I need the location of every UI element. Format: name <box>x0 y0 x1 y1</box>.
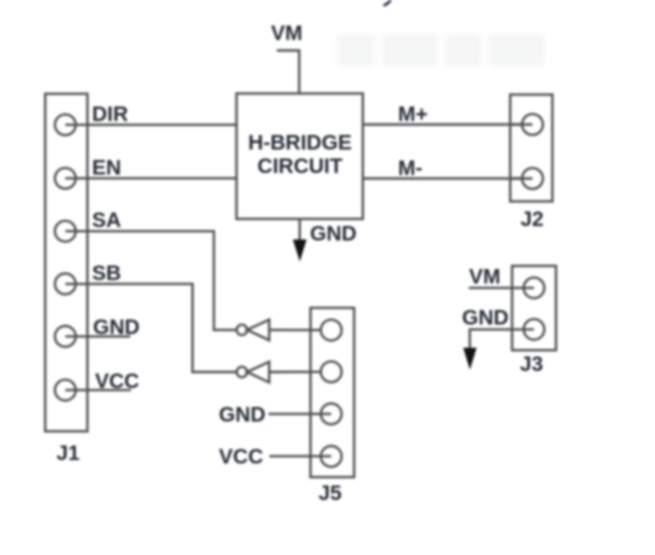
wire M+ into J2 pin 1 <box>510 123 532 125</box>
wire inverter 1 output to J5 pin 1 <box>269 329 331 332</box>
wire GND from J3 pin 2 down <box>470 329 534 348</box>
svg-text:CIRCUIT: CIRCUIT <box>257 155 342 178</box>
svg-text:M+: M+ <box>398 103 428 126</box>
wire GND to J5 pin 3 <box>269 413 332 415</box>
wire SA from J1 pin 3 to inverter 1 <box>65 231 236 330</box>
svg-text:VM: VM <box>469 266 501 289</box>
wire VM to J3 pin 1 <box>469 287 534 289</box>
wire VCC to J5 pin 4 <box>270 455 332 457</box>
svg-text:VCC: VCC <box>219 445 263 468</box>
wire M- from H-bridge to J2 pin 2 <box>363 177 533 179</box>
wire EN from J1 pin 2 to H-bridge <box>65 177 236 179</box>
svg-text:EN: EN <box>92 156 121 179</box>
inverter 1 (SA) <box>237 320 270 341</box>
wire VM to H-bridge top <box>277 51 299 94</box>
op-amp U1 H-bridge circuit block <box>237 94 363 219</box>
svg-text:M-: M- <box>398 157 423 180</box>
svg-text:VCC: VCC <box>95 370 139 393</box>
svg-text:GND: GND <box>310 223 357 246</box>
svg-text:J5: J5 <box>318 482 342 505</box>
ground arrow at J3 <box>463 348 476 370</box>
svg-text:DIR: DIR <box>92 103 128 126</box>
svg-text:H-BRIDGE: H-BRIDGE <box>248 132 352 155</box>
wire inverter 2 output to J5 pin 2 <box>269 371 331 374</box>
faint ghost text band <box>338 34 544 66</box>
svg-text:J3: J3 <box>520 353 543 376</box>
svg-text:GND: GND <box>93 316 140 339</box>
wire M- into J2 pin 2 <box>510 177 532 179</box>
ground arrow under H-bridge <box>293 240 307 262</box>
connector J2 <box>510 95 552 231</box>
connector J3 <box>512 266 556 376</box>
connector J5 <box>311 308 355 505</box>
svg-text:GND: GND <box>219 403 266 426</box>
wire fragment at top edge <box>384 0 392 6</box>
inverter 2 (SB) <box>237 362 270 383</box>
wire SB from J1 pin 4 to inverter 2 <box>65 284 236 372</box>
svg-text:SB: SB <box>92 262 121 285</box>
wire GND stub at J1 pin 5 <box>65 335 130 337</box>
svg-text:SA: SA <box>92 209 121 232</box>
svg-text:GND: GND <box>462 307 509 330</box>
wire VCC stub at J1 pin 6 <box>65 389 131 391</box>
wire GND below H-bridge <box>299 219 301 240</box>
svg-text:J1: J1 <box>56 442 80 465</box>
connector J1 <box>45 94 87 465</box>
wire DIR from J1 pin 1 to H-bridge <box>65 124 236 126</box>
svg-text:VM: VM <box>271 22 303 45</box>
svg-text:J2: J2 <box>520 208 543 231</box>
svg-text:██ ███ ██ ███: ██ ███ ██ ███ <box>338 34 544 66</box>
wire M+ from H-bridge to J2 pin 1 <box>363 123 533 125</box>
